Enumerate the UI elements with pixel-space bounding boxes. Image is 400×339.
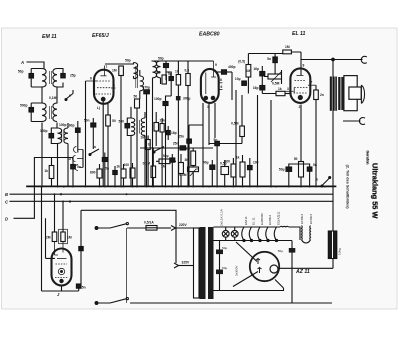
svg-text:16p: 16p [253, 67, 259, 71]
svg-text:1k: 1k [278, 87, 282, 91]
svg-text:ED(AZ)11: ED(AZ)11 [277, 211, 281, 225]
svg-text:0,3: 0,3 [185, 69, 190, 73]
svg-text:EL 11: EL 11 [292, 31, 305, 37]
svg-text:0,5M: 0,5M [231, 122, 239, 126]
svg-text:9: 9 [215, 63, 217, 67]
svg-text:220V: 220V [179, 223, 188, 227]
svg-text:20k: 20k [160, 119, 166, 123]
svg-text:5n: 5n [77, 165, 81, 169]
svg-text:50p: 50p [158, 57, 164, 61]
svg-text:500p: 500p [20, 104, 28, 108]
svg-text:50p: 50p [18, 70, 24, 74]
svg-text:EF65/J: EF65/J [300, 214, 304, 224]
svg-text:B: B [5, 192, 8, 197]
svg-text:8: 8 [220, 78, 222, 82]
svg-text:40µ: 40µ [203, 161, 209, 165]
svg-text:500: 500 [118, 120, 124, 124]
svg-text:a: a [94, 145, 96, 149]
svg-text:L): L) [97, 106, 100, 110]
svg-text:3k: 3k [185, 158, 189, 162]
svg-text:EM 11: EM 11 [244, 216, 248, 225]
svg-text:2x0,1K 0,1A: 2x0,1K 0,1A [220, 208, 224, 226]
svg-text:EF65/J: EF65/J [268, 215, 272, 225]
svg-text:800: 800 [90, 171, 96, 175]
svg-text:5n: 5n [267, 57, 271, 61]
svg-text:0,1M: 0,1M [49, 96, 57, 100]
svg-text:50µ: 50µ [279, 168, 285, 172]
svg-text:10: 10 [175, 70, 179, 74]
svg-text:2,5: 2,5 [156, 71, 161, 75]
svg-text:3: 3 [287, 87, 289, 91]
svg-text:Gerufon: Gerufon [365, 151, 369, 165]
svg-text:1M: 1M [67, 236, 72, 240]
svg-text:7: 7 [106, 65, 108, 69]
svg-text:160p: 160p [67, 124, 75, 128]
svg-text:EABC80: EABC80 [260, 213, 264, 225]
svg-text:1M: 1M [285, 45, 290, 49]
svg-text:50n: 50n [84, 119, 90, 123]
svg-text:1M: 1M [246, 69, 251, 73]
svg-text:EM 11: EM 11 [42, 34, 57, 40]
svg-text:25n: 25n [178, 135, 184, 139]
svg-text:50: 50 [112, 119, 116, 123]
svg-text:b: b [148, 143, 150, 147]
svg-text:50µ: 50µ [222, 266, 227, 270]
svg-text:AZ 11: AZ 11 [295, 269, 310, 275]
svg-text:50: 50 [294, 157, 298, 161]
svg-text:EF65/J: EF65/J [92, 33, 109, 39]
svg-text:A: A [20, 60, 24, 65]
svg-text:25p: 25p [70, 74, 76, 78]
svg-text:2x300V: 2x300V [235, 265, 239, 276]
svg-text:1k: 1k [44, 169, 48, 173]
svg-text:10µ: 10µ [235, 77, 241, 81]
svg-text:160p: 160p [40, 129, 48, 133]
svg-text:50µ: 50µ [163, 154, 169, 158]
svg-text:10kg: 10kg [338, 248, 342, 255]
svg-text:0,5n: 0,5n [79, 286, 86, 290]
svg-text:300: 300 [224, 160, 230, 164]
svg-text:1k: 1k [116, 165, 120, 169]
svg-text:2n: 2n [320, 93, 324, 97]
svg-text:5p: 5p [168, 72, 172, 76]
svg-text:25n: 25n [173, 142, 179, 146]
svg-text:2M: 2M [46, 236, 51, 240]
svg-text:EL 11: EL 11 [252, 217, 256, 225]
svg-text:1M: 1M [161, 165, 166, 169]
svg-text:0,5M: 0,5M [272, 82, 280, 86]
svg-text:400p: 400p [228, 65, 236, 69]
svg-text:8: 8 [303, 64, 305, 68]
svg-text:0,1M: 0,1M [143, 162, 151, 166]
svg-text:100p: 100p [154, 97, 162, 101]
svg-text:16p: 16p [253, 86, 259, 90]
svg-text:325V: 325V [182, 261, 191, 265]
svg-text:1: 1 [207, 105, 209, 109]
svg-text:50µ: 50µ [222, 246, 227, 250]
svg-text:0,5M: 0,5M [179, 173, 187, 177]
svg-text:a: a [69, 94, 71, 98]
svg-text:5n: 5n [105, 167, 109, 171]
svg-text:5n: 5n [214, 138, 218, 142]
svg-text:EF65/J: EF65/J [309, 214, 313, 224]
svg-text:0,5/1A: 0,5/1A [144, 221, 154, 225]
svg-text:Ultraklang 55 W: Ultraklang 55 W [371, 163, 380, 218]
svg-text:300µ: 300µ [183, 97, 191, 101]
svg-text:50µ: 50µ [278, 249, 283, 253]
svg-text:EABC80: EABC80 [199, 32, 220, 38]
svg-text:6: 6 [90, 77, 92, 81]
svg-text:16p: 16p [171, 131, 177, 135]
svg-text:2: 2 [299, 105, 301, 109]
svg-text:50: 50 [134, 95, 138, 99]
svg-text:1M: 1M [112, 69, 117, 73]
svg-text:6: 6 [221, 85, 223, 89]
svg-text:100p: 100p [59, 123, 67, 127]
svg-text:50p: 50p [125, 59, 131, 63]
svg-text:(D: (D [68, 157, 72, 161]
svg-text:D: D [5, 217, 8, 222]
svg-text:(2. Teil des Schaltbildes): (2. Teil des Schaltbildes) [345, 165, 349, 210]
svg-text:1M: 1M [140, 136, 145, 140]
svg-text:(0,5): (0,5) [238, 60, 245, 64]
svg-text:100: 100 [123, 163, 129, 167]
svg-text:470p: 470p [142, 86, 150, 90]
